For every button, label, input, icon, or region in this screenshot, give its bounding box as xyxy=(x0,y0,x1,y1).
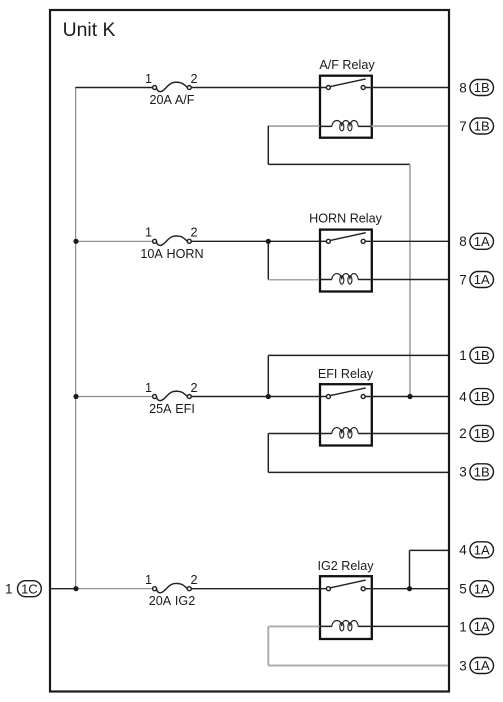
wire row1 left segment xyxy=(75,87,152,89)
svg-text:1B: 1B xyxy=(474,426,490,441)
wire HORN relay output to terminal 8 1A xyxy=(371,240,448,242)
wire row2 bus to fuse (gray) xyxy=(76,240,153,242)
svg-text:1: 1 xyxy=(145,381,152,395)
fuse F1 pin 1 label xyxy=(145,72,152,86)
relay U1 title A/F Relay xyxy=(319,58,375,72)
terminal 5 1A xyxy=(459,581,493,597)
wire row3 fuse to relay xyxy=(191,396,320,398)
wire A/F coil route horizontal y164 xyxy=(268,163,410,165)
junction EFI output x410 xyxy=(407,394,412,399)
wire A/F coil right to terminal 7 1B (gray) xyxy=(372,125,449,127)
relay U3 title EFI Relay xyxy=(318,367,374,381)
relay U1 coil xyxy=(321,120,371,130)
junction EFI input branch xyxy=(266,394,271,399)
terminal 8 1A xyxy=(459,233,493,249)
relay U3 EFI Relay box xyxy=(320,384,372,445)
svg-text:1: 1 xyxy=(459,619,467,634)
wire IG2 coil left vertical down (gray) xyxy=(267,626,269,665)
fuse F4 pin 1 label xyxy=(145,573,152,587)
wire terminal 1 1B horizontal xyxy=(268,354,448,356)
junction bus row2 xyxy=(73,239,78,244)
svg-text:2: 2 xyxy=(190,226,197,240)
unit K boundary box xyxy=(50,10,449,692)
fuse F1 value label 20A A/F xyxy=(149,93,194,107)
relay U2 switch xyxy=(321,233,371,244)
relay U4 IG2 Relay box xyxy=(320,576,372,639)
svg-text:2: 2 xyxy=(190,381,197,395)
svg-text:2: 2 xyxy=(190,72,197,86)
svg-text:1: 1 xyxy=(459,348,467,363)
terminal 7 1B xyxy=(459,118,493,134)
wire terminal 1 1B vertical to EFI input xyxy=(267,355,269,396)
wire A/F coil route vertical x410 (gray) xyxy=(409,164,411,396)
svg-text:5: 5 xyxy=(459,582,467,597)
wire HORN coil right to terminal 7 1A xyxy=(372,279,449,281)
svg-text:1: 1 xyxy=(145,226,152,240)
relay U2 HORN Relay box xyxy=(320,230,372,292)
svg-text:1: 1 xyxy=(5,582,13,597)
svg-text:10A HORN: 10A HORN xyxy=(140,247,203,261)
terminal 8 1B xyxy=(459,80,493,96)
svg-text:8: 8 xyxy=(459,80,467,95)
svg-text:3: 3 xyxy=(459,658,467,673)
wire terminal 4 1A horizontal xyxy=(410,549,449,551)
svg-text:EFI Relay: EFI Relay xyxy=(318,367,374,381)
wire EFI relay output to terminal 4 1B xyxy=(371,396,448,398)
wire EFI coil right to terminal 2 1B xyxy=(372,433,449,435)
wire IG2 coil left horizontal (gray) xyxy=(268,625,319,627)
relay U3 coil xyxy=(321,428,371,438)
relay U3 switch xyxy=(321,388,371,399)
svg-text:20A A/F: 20A A/F xyxy=(149,93,194,107)
svg-text:1B: 1B xyxy=(474,389,490,404)
junction HORN coil branch xyxy=(266,239,271,244)
terminal 3 1A xyxy=(459,658,493,674)
wire EFI coil left horizontal xyxy=(268,433,319,435)
wire row4 fuse to relay xyxy=(191,588,320,590)
fuse F2 pin 2 label xyxy=(190,226,197,240)
fuse F3 25A EFI xyxy=(153,391,192,400)
svg-text:1A: 1A xyxy=(474,658,490,673)
wire row1 fuse to relay xyxy=(191,87,320,89)
relay U4 switch xyxy=(321,580,371,591)
terminal 7 1A xyxy=(459,272,493,288)
wire A/F coil left horizontal (gray) xyxy=(268,125,319,127)
svg-text:1: 1 xyxy=(145,72,152,86)
junction bus row4 xyxy=(73,586,78,591)
relay U4 coil xyxy=(321,621,371,631)
relay U2 title HORN Relay xyxy=(309,211,382,225)
fuse F4 value label 20A IG2 xyxy=(149,594,195,608)
svg-text:1C: 1C xyxy=(21,581,38,596)
fuse F4 pin 2 label xyxy=(190,573,197,587)
wire EFI coil left vertical down xyxy=(267,434,269,473)
relay U4 title IG2 Relay xyxy=(318,559,375,573)
terminal 4 1A xyxy=(459,542,493,558)
svg-text:25A EFI: 25A EFI xyxy=(149,402,195,416)
svg-text:1B: 1B xyxy=(474,464,490,479)
fuse F3 pin 2 label xyxy=(190,381,197,395)
svg-text:1: 1 xyxy=(145,573,152,587)
wire terminal 3 1B horizontal xyxy=(268,471,448,473)
svg-text:4: 4 xyxy=(459,543,467,558)
fuse F3 value label 25A EFI xyxy=(149,402,195,416)
terminal 1 1C left xyxy=(5,581,41,597)
terminal 2 1B xyxy=(459,425,493,441)
svg-text:2: 2 xyxy=(190,573,197,587)
wire A/F coil left vertical down xyxy=(267,126,269,165)
junction bus row3 xyxy=(73,394,78,399)
svg-text:8: 8 xyxy=(459,234,467,249)
wire terminal 3 1A horizontal (gray) xyxy=(268,665,448,667)
relay U1 switch xyxy=(321,79,371,90)
terminal 1 1A xyxy=(459,619,493,635)
svg-text:20A IG2: 20A IG2 xyxy=(149,594,195,608)
terminal 3 1B xyxy=(459,464,493,480)
svg-text:1A: 1A xyxy=(474,542,490,557)
wire row4 bus to fuse (gray) xyxy=(76,588,153,590)
svg-text:1A: 1A xyxy=(474,619,490,634)
fuse F1 20A A/F xyxy=(153,82,192,91)
relay U1 A/F Relay box xyxy=(320,76,372,138)
fuse F3 pin 1 label xyxy=(145,381,152,395)
svg-text:IG2 Relay: IG2 Relay xyxy=(318,559,375,573)
terminal 4 1B xyxy=(459,389,493,405)
svg-text:2: 2 xyxy=(459,426,467,441)
relay U2 coil xyxy=(321,274,371,284)
svg-text:1B: 1B xyxy=(474,348,490,363)
wire A/F relay output to terminal 8 1B xyxy=(371,87,448,89)
svg-text:1B: 1B xyxy=(474,119,490,134)
fuse F2 pin 1 label xyxy=(145,226,152,240)
svg-text:HORN Relay: HORN Relay xyxy=(309,211,382,225)
wire IG2 relay output to terminal 5 1A xyxy=(371,588,448,590)
svg-text:A/F Relay: A/F Relay xyxy=(319,58,375,72)
fuse F2 10A HORN xyxy=(153,236,192,245)
terminal 1 1B xyxy=(459,347,493,363)
wire IG2 coil right to terminal 1 1A xyxy=(372,625,449,627)
svg-text:7: 7 xyxy=(459,272,467,287)
junction IG2 output x409.5 xyxy=(407,586,412,591)
wire row3 bus to fuse (gray) xyxy=(76,396,153,398)
label Unit K xyxy=(63,19,116,41)
wire HORN coil branch vertical xyxy=(267,241,269,279)
svg-text:4: 4 xyxy=(459,389,467,404)
svg-text:7: 7 xyxy=(459,119,467,134)
svg-text:1A: 1A xyxy=(474,272,490,287)
wire IG2 output branch vertical x409.5 xyxy=(409,550,411,588)
svg-text:1A: 1A xyxy=(474,234,490,249)
svg-text:1A: 1A xyxy=(474,581,490,596)
svg-text:1B: 1B xyxy=(474,80,490,95)
wire HORN coil left horizontal (gray) xyxy=(268,279,319,281)
fuse F4 20A IG2 xyxy=(153,583,192,592)
wire row2 fuse to relay xyxy=(191,240,320,242)
fuse F2 value label 10A HORN xyxy=(140,247,203,261)
wire terminal 1C to bus xyxy=(51,588,76,590)
svg-text:Unit K: Unit K xyxy=(63,19,116,41)
svg-text:3: 3 xyxy=(459,465,467,480)
wire bus left vertical xyxy=(75,88,77,589)
fuse F1 pin 2 label xyxy=(190,72,197,86)
